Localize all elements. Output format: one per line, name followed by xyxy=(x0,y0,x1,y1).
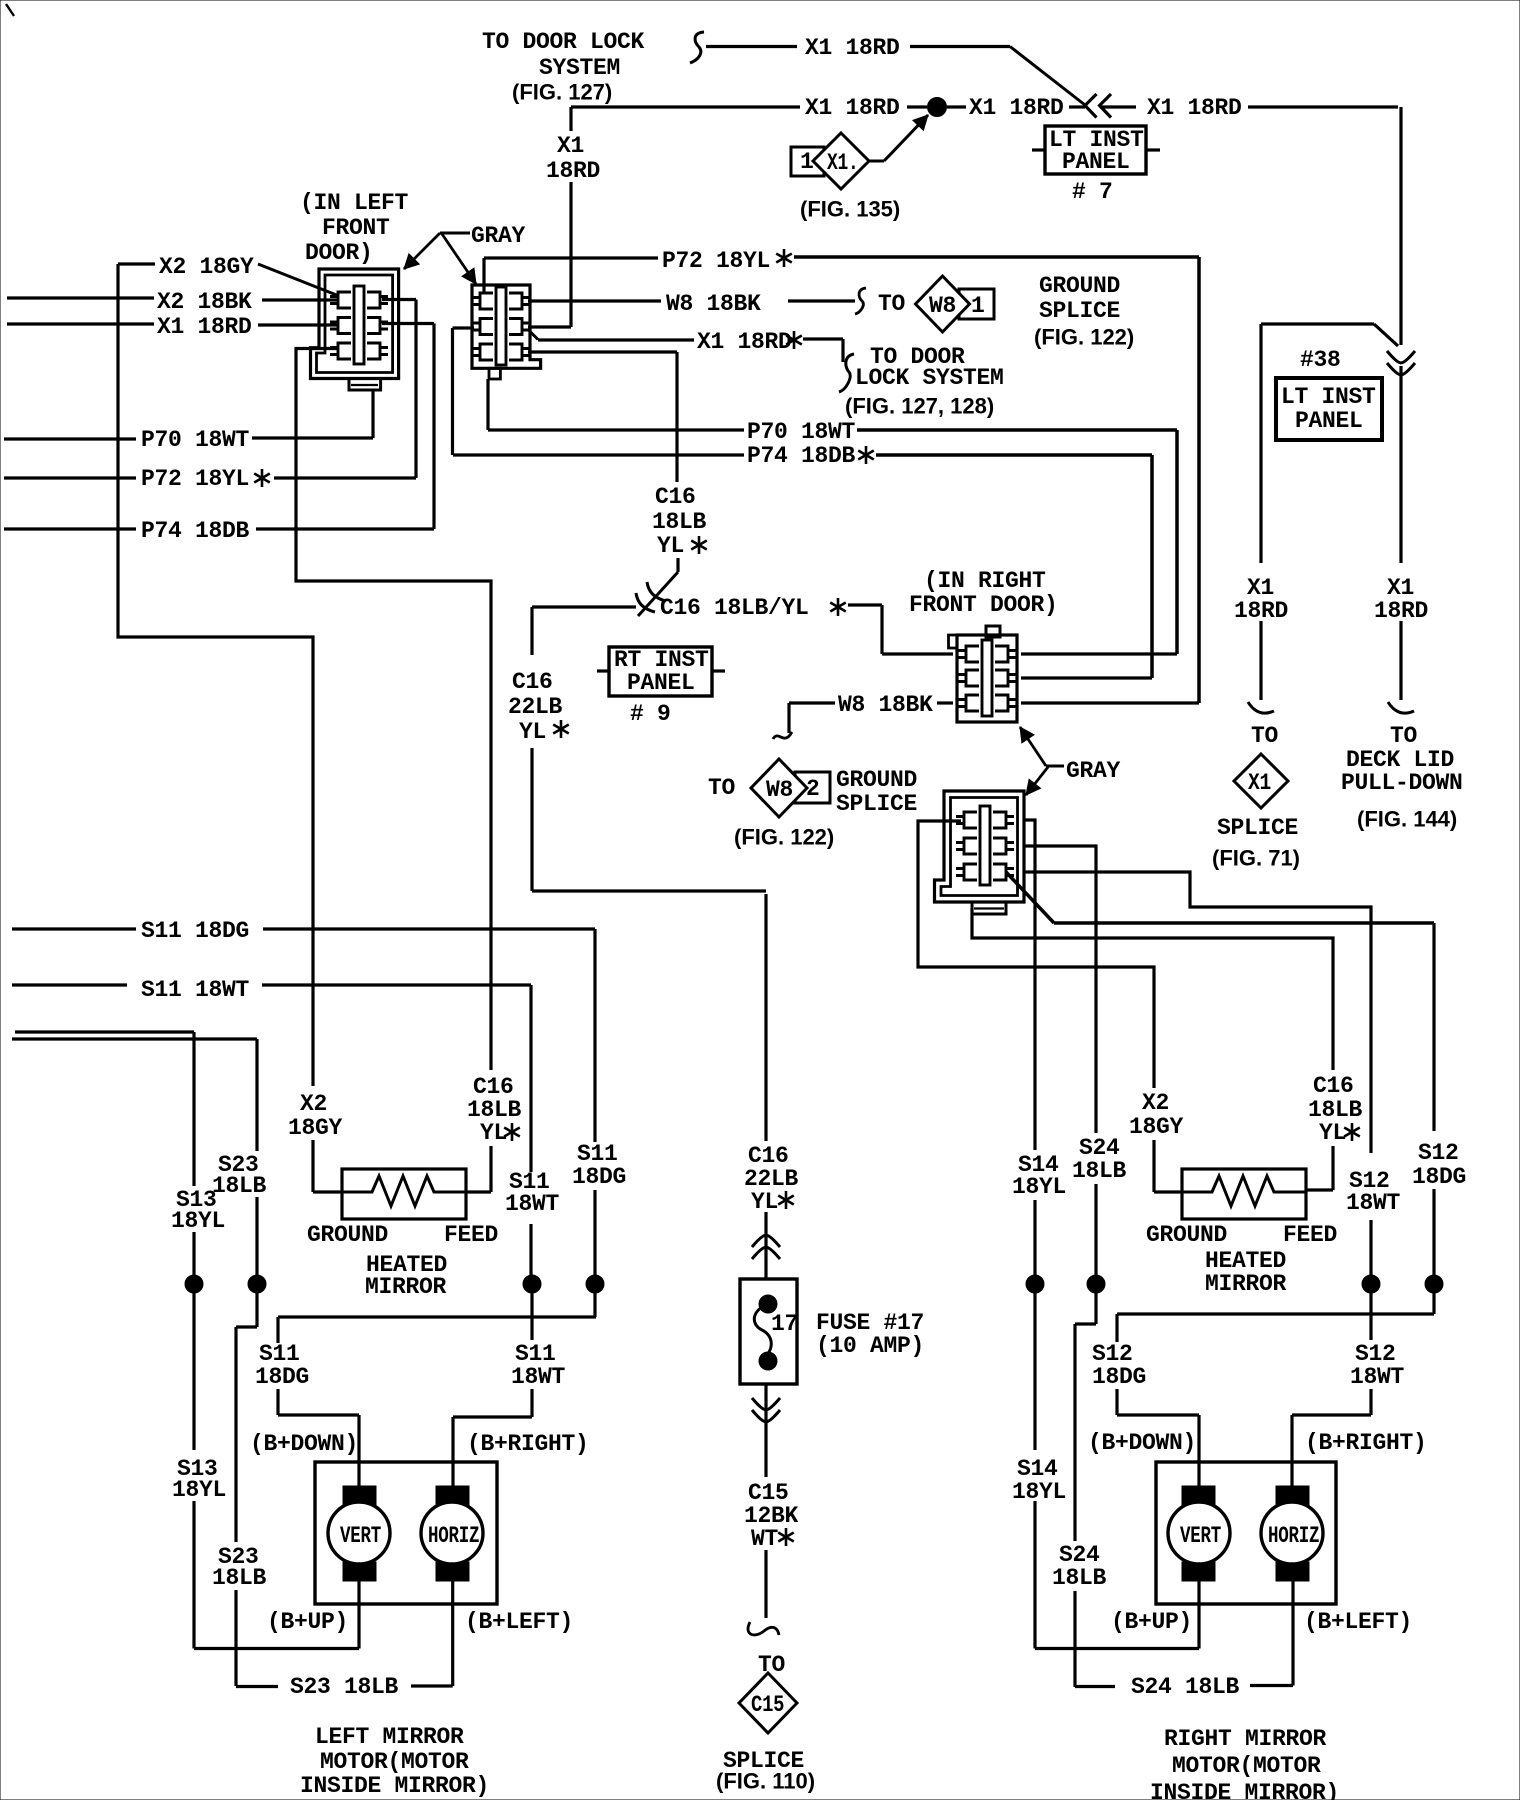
svg-text:C16: C16 xyxy=(1313,1073,1354,1099)
svg-text:MIRROR: MIRROR xyxy=(365,1274,447,1300)
svg-text:P72 18YL: P72 18YL xyxy=(662,248,770,274)
svg-text:FEED: FEED xyxy=(1283,1222,1337,1248)
svg-text:(B+UP): (B+UP) xyxy=(267,1609,348,1635)
svg-text:TO: TO xyxy=(758,1652,785,1678)
svg-text:YL: YL xyxy=(657,533,684,559)
svg-text:P72 18YL: P72 18YL xyxy=(141,466,249,492)
svg-text:MOTOR(MOTOR: MOTOR(MOTOR xyxy=(320,1749,469,1775)
svg-text:18GY: 18GY xyxy=(1129,1114,1184,1140)
svg-text:(B+RIGHT): (B+RIGHT) xyxy=(467,1431,589,1457)
svg-text:FRONT DOOR): FRONT DOOR) xyxy=(909,592,1058,618)
svg-text:S11 18WT: S11 18WT xyxy=(141,977,250,1003)
svg-text:(B+UP): (B+UP) xyxy=(1111,1609,1192,1635)
svg-text:(FIG. 122): (FIG. 122) xyxy=(734,825,834,850)
svg-text:C16: C16 xyxy=(655,484,696,510)
svg-text:X2: X2 xyxy=(1142,1090,1169,1116)
svg-text:SPLICE: SPLICE xyxy=(836,791,917,817)
svg-text:TO DOOR LOCK: TO DOOR LOCK xyxy=(482,29,645,55)
svg-text:C16 18LB/YL: C16 18LB/YL xyxy=(660,595,809,621)
svg-text:(FIG. 110): (FIG. 110) xyxy=(716,1769,815,1794)
svg-text:PANEL: PANEL xyxy=(1062,149,1130,175)
svg-text:18WT: 18WT xyxy=(505,1191,560,1217)
svg-text:(FIG. 122): (FIG. 122) xyxy=(1034,325,1134,350)
svg-text:INSIDE MIRROR): INSIDE MIRROR) xyxy=(1150,1780,1339,1800)
svg-text:INSIDE MIRROR): INSIDE MIRROR) xyxy=(300,1773,489,1799)
svg-text:W8: W8 xyxy=(766,777,793,803)
svg-text:YL: YL xyxy=(480,1120,507,1146)
svg-text:X2: X2 xyxy=(300,1091,327,1117)
svg-text:PANEL: PANEL xyxy=(627,670,695,696)
svg-text:18WT: 18WT xyxy=(511,1364,566,1390)
svg-text:18DG: 18DG xyxy=(255,1364,309,1390)
svg-text:HORIZ: HORIZ xyxy=(1268,1524,1319,1550)
svg-text:18LB: 18LB xyxy=(1052,1565,1107,1591)
svg-text:18LB: 18LB xyxy=(1072,1158,1127,1184)
svg-text:(10 AMP): (10 AMP) xyxy=(816,1333,924,1359)
svg-text:(B+DOWN): (B+DOWN) xyxy=(250,1431,358,1457)
svg-text:X2 18BK: X2 18BK xyxy=(157,289,252,315)
svg-text:LT INST: LT INST xyxy=(1281,384,1376,410)
svg-text:GROUND: GROUND xyxy=(1039,273,1120,299)
svg-text:S23 18LB: S23 18LB xyxy=(290,1674,399,1700)
svg-text:LEFT MIRROR: LEFT MIRROR xyxy=(315,1724,464,1750)
svg-text:YL: YL xyxy=(1319,1120,1346,1146)
svg-text:18RD: 18RD xyxy=(1234,598,1288,624)
svg-text:TO: TO xyxy=(878,291,905,317)
svg-text:TO: TO xyxy=(708,775,735,801)
svg-text:(FIG. 135): (FIG. 135) xyxy=(800,197,900,222)
svg-text:W8 18BK: W8 18BK xyxy=(666,291,761,317)
svg-text:(FIG. 127, 128): (FIG. 127, 128) xyxy=(845,394,994,419)
svg-text:18LB: 18LB xyxy=(652,509,707,535)
svg-text:18YL: 18YL xyxy=(171,1208,225,1234)
svg-text:S12: S12 xyxy=(1418,1140,1459,1166)
svg-text:18GY: 18GY xyxy=(288,1115,343,1141)
svg-text:W8: W8 xyxy=(929,293,956,319)
svg-text:MIRROR: MIRROR xyxy=(1205,1271,1287,1297)
svg-text:18LB: 18LB xyxy=(212,1565,267,1591)
svg-text:GROUND: GROUND xyxy=(836,767,917,793)
svg-text:TO: TO xyxy=(1251,723,1278,749)
svg-text:X1.: X1. xyxy=(827,151,859,177)
svg-text:18YL: 18YL xyxy=(1012,1479,1066,1505)
svg-text:SPLICE: SPLICE xyxy=(1039,298,1120,324)
svg-text:VERT: VERT xyxy=(340,1524,381,1550)
svg-text:18LB: 18LB xyxy=(212,1173,267,1199)
svg-text:GROUND: GROUND xyxy=(1146,1222,1227,1248)
svg-text:P70 18WT: P70 18WT xyxy=(747,419,856,445)
svg-text:S11 18DG: S11 18DG xyxy=(141,918,249,944)
svg-text:WT: WT xyxy=(751,1526,779,1552)
svg-text:X1 18RD: X1 18RD xyxy=(157,314,252,340)
svg-text:17: 17 xyxy=(771,1311,798,1337)
svg-text:GRAY: GRAY xyxy=(471,223,526,249)
svg-text:VERT: VERT xyxy=(1180,1524,1221,1550)
svg-text:P70 18WT: P70 18WT xyxy=(141,427,250,453)
svg-text:(B+DOWN): (B+DOWN) xyxy=(1088,1430,1196,1456)
svg-text:RIGHT MIRROR: RIGHT MIRROR xyxy=(1164,1726,1327,1752)
svg-text:1: 1 xyxy=(800,149,814,175)
svg-text:22LB: 22LB xyxy=(508,694,563,720)
svg-text:18YL: 18YL xyxy=(1012,1174,1066,1200)
svg-text:X2 18GY: X2 18GY xyxy=(159,254,254,280)
svg-text:1: 1 xyxy=(971,293,985,319)
svg-text:X1: X1 xyxy=(557,133,584,159)
svg-text:(IN LEFT: (IN LEFT xyxy=(300,190,409,216)
svg-text:(B+RIGHT): (B+RIGHT) xyxy=(1305,1430,1427,1456)
svg-text:X1 18RD: X1 18RD xyxy=(697,329,792,355)
svg-text:(FIG. 144): (FIG. 144) xyxy=(1357,807,1457,832)
svg-text:FEED: FEED xyxy=(444,1222,498,1248)
svg-text:LOCK SYSTEM: LOCK SYSTEM xyxy=(855,365,1004,391)
svg-text:18YL: 18YL xyxy=(172,1477,226,1503)
svg-text:(IN RIGHT: (IN RIGHT xyxy=(924,568,1046,594)
svg-text:18DG: 18DG xyxy=(1092,1364,1146,1390)
svg-text:C16: C16 xyxy=(512,669,553,695)
svg-text:18RD: 18RD xyxy=(546,158,600,184)
svg-text:SYSTEM: SYSTEM xyxy=(539,55,620,81)
svg-text:(B+LEFT): (B+LEFT) xyxy=(465,1609,573,1635)
svg-text:P74 18DB: P74 18DB xyxy=(141,518,250,544)
svg-text:W8 18BK: W8 18BK xyxy=(838,692,933,718)
svg-text:# 9: # 9 xyxy=(630,701,671,727)
svg-text:FRONT: FRONT xyxy=(322,215,390,241)
svg-text:X1 18RD: X1 18RD xyxy=(969,95,1064,121)
svg-text:S24 18LB: S24 18LB xyxy=(1131,1674,1240,1700)
svg-text:YL: YL xyxy=(751,1189,778,1215)
svg-text:18DG: 18DG xyxy=(1412,1164,1466,1190)
svg-text:HORIZ: HORIZ xyxy=(428,1524,479,1550)
svg-text:18WT: 18WT xyxy=(1350,1364,1405,1390)
svg-text:# 7: # 7 xyxy=(1072,179,1113,205)
svg-text:GROUND: GROUND xyxy=(307,1222,388,1248)
svg-text:18WT: 18WT xyxy=(1346,1190,1401,1216)
svg-text:P74 18DB: P74 18DB xyxy=(747,443,856,469)
svg-text:X1 18RD: X1 18RD xyxy=(1147,95,1242,121)
svg-text:PANEL: PANEL xyxy=(1295,408,1363,434)
svg-text:PULL-DOWN: PULL-DOWN xyxy=(1341,770,1463,796)
svg-text:X1: X1 xyxy=(1248,771,1271,797)
svg-text:(FIG. 127): (FIG. 127) xyxy=(512,80,612,105)
svg-text:GRAY: GRAY xyxy=(1066,758,1121,784)
svg-text:MOTOR(MOTOR: MOTOR(MOTOR xyxy=(1172,1753,1321,1779)
svg-text:(FIG. 71): (FIG. 71) xyxy=(1212,846,1300,871)
svg-text:(B+LEFT): (B+LEFT) xyxy=(1304,1609,1412,1635)
svg-text:X1 18RD: X1 18RD xyxy=(805,95,900,121)
svg-text:SPLICE: SPLICE xyxy=(1217,815,1298,841)
svg-text:18RD: 18RD xyxy=(1374,598,1428,624)
svg-text:C15: C15 xyxy=(751,1692,784,1718)
svg-text:DOOR): DOOR) xyxy=(305,240,373,266)
svg-text:#38: #38 xyxy=(1300,347,1341,373)
svg-text:X1 18RD: X1 18RD xyxy=(805,35,900,61)
svg-text:TO: TO xyxy=(1390,723,1417,749)
svg-text:YL: YL xyxy=(519,719,546,745)
svg-text:18DG: 18DG xyxy=(572,1164,626,1190)
